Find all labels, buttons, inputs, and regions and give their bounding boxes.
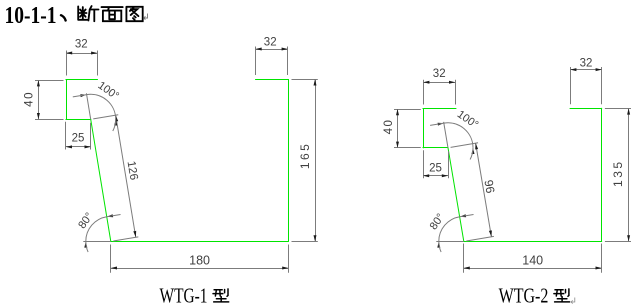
svg-text:WTG-2: WTG-2: [499, 284, 549, 308]
svg-text:32: 32: [75, 39, 88, 51]
svg-text:32: 32: [580, 57, 593, 69]
svg-text:40: 40: [383, 119, 395, 135]
svg-text:40: 40: [24, 91, 36, 107]
svg-text:25: 25: [429, 163, 442, 175]
svg-text:180: 180: [189, 253, 210, 267]
svg-text:165: 165: [298, 142, 312, 170]
svg-text:96: 96: [481, 179, 497, 195]
svg-text:25: 25: [72, 132, 85, 144]
svg-text:WTG-1: WTG-1: [160, 284, 208, 308]
svg-text:10-1-1: 10-1-1: [5, 3, 57, 29]
svg-text:140: 140: [522, 253, 543, 267]
svg-text:32: 32: [264, 36, 277, 48]
svg-text:32: 32: [433, 68, 446, 80]
svg-text:135: 135: [611, 159, 625, 187]
